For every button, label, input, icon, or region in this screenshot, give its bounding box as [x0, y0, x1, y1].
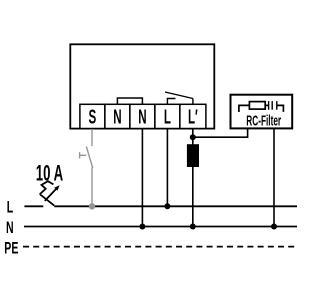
junction L terminal/L bus	[164, 203, 170, 209]
junction N2/N bus	[139, 224, 145, 230]
capacitor (RC-Filter)	[269, 101, 284, 112]
svg-text:L′: L′	[188, 106, 198, 128]
jumper N1-N2	[117, 98, 142, 104]
svg-text:L: L	[164, 106, 171, 128]
net PE bus line (dashed)	[23, 246, 298, 248]
load (black block)	[187, 144, 199, 167]
svg-text:N: N	[6, 217, 14, 236]
net N bus line	[24, 226, 297, 228]
svg-text:10 A: 10 A	[36, 161, 63, 185]
net L bus line	[24, 205, 297, 207]
wire RC-Filter left pin to L' node	[193, 128, 248, 137]
wire L terminal to L bus	[166, 129, 168, 207]
device outline (dimmer unit)	[70, 44, 214, 128]
junction L'/RC-filter tap	[190, 134, 196, 140]
wire N2 terminal to N bus	[141, 129, 143, 227]
svg-text:S: S	[89, 106, 97, 128]
RC-Filter module box	[231, 95, 293, 129]
terminal S	[80, 104, 105, 128]
svg-text:L: L	[7, 197, 14, 216]
terminal L	[155, 104, 180, 128]
resistor (RC-Filter)	[239, 102, 268, 112]
junction S wire/L bus (gray)	[89, 203, 95, 209]
wire RC-Filter right pin to N bus	[273, 128, 275, 226]
terminal N2	[130, 104, 155, 128]
internal switch contact L-L'	[165, 92, 193, 104]
svg-text:RC-Filter: RC-Filter	[246, 112, 281, 129]
svg-text:N: N	[138, 106, 146, 128]
wire L' terminal to N bus (load branch)	[192, 129, 194, 227]
svg-text:N: N	[113, 106, 121, 128]
wire pushbutton to L bus (gray)	[91, 168, 93, 207]
junction load/N bus	[190, 224, 196, 230]
terminal N1	[105, 104, 130, 128]
circuit breaker 10A on L bus	[40, 181, 56, 205]
svg-text:PE: PE	[4, 238, 18, 257]
junction RC-filter/N bus	[271, 224, 277, 230]
wire S terminal down (gray control wire)	[91, 129, 93, 146]
pushbutton (wall switch) on S wire	[80, 147, 93, 168]
terminal L'	[180, 104, 206, 128]
